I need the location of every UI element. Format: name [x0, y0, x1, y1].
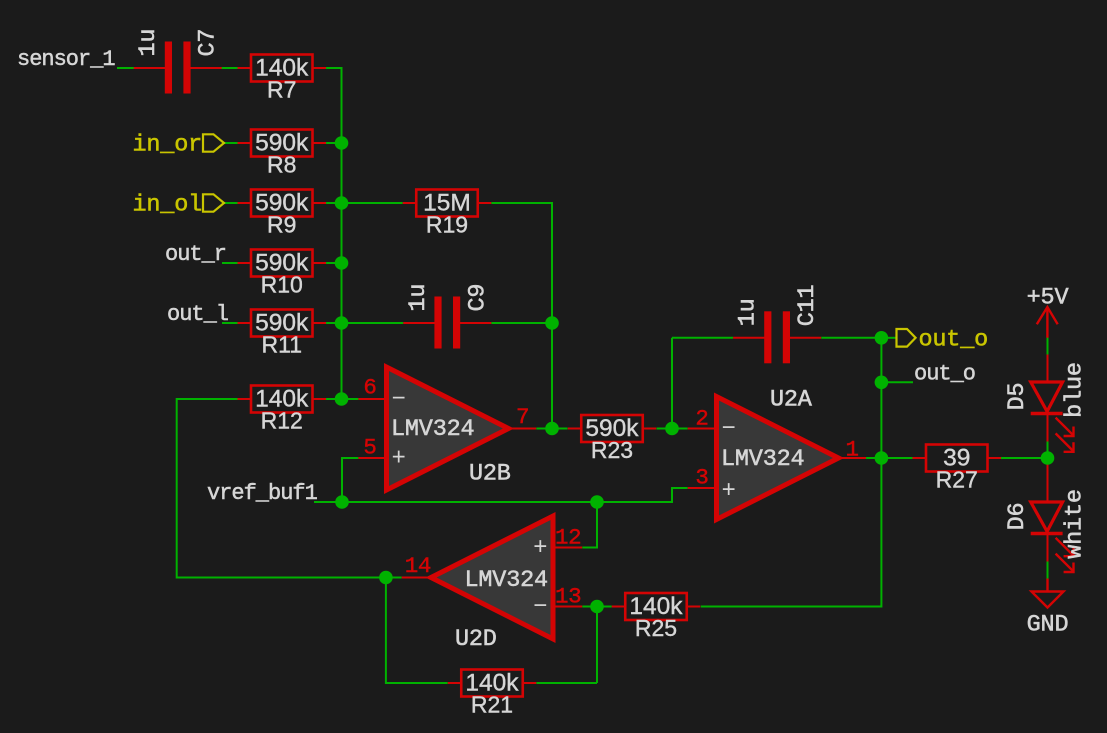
wire in_or to R8: [224, 142, 238, 144]
svg-text:1u: 1u: [735, 298, 762, 326]
resistor R7: [238, 55, 327, 103]
junction bus/out_l: [335, 316, 349, 330]
wire junction to R23: [552, 428, 568, 430]
wire junction up to C11 row: [671, 338, 673, 429]
wire D6 to GND: [1047, 562, 1049, 579]
LED D5: [1004, 355, 1089, 459]
wire C11 to junction: [821, 337, 881, 339]
svg-text:vref_buf1: vref_buf1: [207, 481, 318, 506]
wire U2D pin12 elbow to vref: [582, 502, 597, 548]
junction bus/out_r: [335, 256, 349, 270]
svg-text:C7: C7: [195, 29, 222, 57]
junction pin14: [379, 571, 393, 585]
op-amp U2B: [358, 367, 536, 490]
wire in_ol to R9: [224, 202, 238, 204]
svg-text:+: +: [533, 535, 547, 562]
svg-text:R10: R10: [261, 272, 303, 298]
svg-text:D5: D5: [1004, 383, 1031, 411]
junction feedback/C9: [545, 316, 559, 330]
wire U2A pin1 to junction: [866, 457, 881, 459]
svg-text:R21: R21: [471, 692, 513, 718]
resistor R21: [448, 670, 537, 718]
svg-text:LMV324: LMV324: [391, 416, 474, 443]
wire bus in_or to in_ol: [341, 143, 343, 203]
LED D6: [1004, 464, 1089, 572]
svg-text:R11: R11: [262, 332, 303, 358]
svg-text:out_r: out_r: [165, 242, 226, 267]
junction bus/R12/pin6: [335, 392, 349, 406]
wire out_r to R10: [222, 262, 238, 264]
svg-text:5: 5: [363, 435, 376, 461]
wire feedback riser to output row: [551, 323, 553, 429]
svg-text:13: 13: [555, 584, 581, 610]
svg-text:white: white: [1062, 489, 1089, 559]
wire R9 to junction: [326, 202, 342, 204]
svg-text:LMV324: LMV324: [465, 567, 548, 594]
resistor R27: [913, 445, 1002, 493]
junction C11/out_o: [875, 331, 889, 345]
svg-text:−: −: [533, 594, 547, 621]
svg-text:+: +: [392, 446, 406, 473]
svg-text:7: 7: [516, 404, 529, 430]
wire sensor_1 stub: [117, 67, 134, 69]
svg-text:+5V: +5V: [1027, 285, 1069, 312]
wire junction down to out_o tap: [880, 338, 882, 383]
wire bus in_ol to out_r: [341, 203, 343, 263]
svg-text:U2D: U2D: [455, 626, 497, 653]
wire R21 to pin14 riser: [386, 578, 448, 684]
svg-text:3: 3: [695, 465, 708, 491]
wire junction to C9: [342, 322, 404, 324]
svg-text:6: 6: [363, 375, 376, 401]
junction pin13/R25: [590, 600, 604, 614]
svg-text:14: 14: [405, 553, 431, 579]
wire +5V to D5: [1047, 336, 1049, 355]
wire bus out_r to out_l: [341, 263, 343, 323]
wire U2B pin5 elbow to vref: [342, 458, 358, 502]
svg-text:R8: R8: [267, 152, 296, 178]
svg-text:sensor_1: sensor_1: [17, 47, 115, 72]
svg-text:1u: 1u: [405, 284, 432, 312]
resistor R9: [238, 190, 327, 238]
wire junction to out_o global: [881, 337, 896, 339]
wire R27 to LED junction: [1001, 457, 1048, 459]
resistor R25: [612, 593, 701, 641]
svg-text:R23: R23: [591, 437, 633, 463]
op-amp U2D: [402, 516, 583, 653]
wire junction down to R21 row: [596, 607, 598, 684]
capacitor C7: [134, 29, 222, 94]
wire R19 to feedback riser: [491, 203, 552, 323]
svg-text:GND: GND: [1027, 612, 1069, 639]
wire C9 to junction: [491, 322, 552, 324]
svg-text:1: 1: [846, 437, 859, 463]
op-amp U2A: [688, 387, 866, 520]
wire out_o label stub: [881, 381, 913, 383]
wire junction to U2A pin2: [672, 428, 688, 430]
svg-text:−: −: [392, 387, 406, 414]
wire R8 to junction: [326, 142, 342, 144]
svg-text:D6: D6: [1004, 503, 1031, 531]
wire junction to R19: [342, 202, 403, 204]
junction vref/pin12: [590, 495, 604, 509]
wire R12 left loop to U2D: [177, 399, 386, 578]
svg-text:R9: R9: [267, 212, 296, 238]
wire junction to R25: [597, 606, 612, 608]
capacitor C9: [403, 284, 491, 349]
wire U2B pin7 to junction: [536, 428, 552, 430]
svg-text:2: 2: [695, 406, 708, 432]
wire junction to R27: [881, 457, 912, 459]
junction LED node: [1041, 451, 1055, 465]
wire C7 to R7: [221, 67, 238, 69]
junction bus/in_or: [335, 136, 349, 150]
svg-text:in_ol: in_ol: [132, 192, 202, 219]
resistor R23: [568, 415, 657, 463]
wire to R21: [536, 682, 597, 684]
resistor R12: [238, 386, 327, 434]
svg-text:R19: R19: [426, 212, 468, 238]
resistor R8: [238, 130, 327, 178]
capacitor C11: [733, 285, 821, 364]
wire vref_buf1 stub: [314, 501, 342, 503]
junction vref left: [335, 495, 349, 509]
wire R11 to junction: [326, 322, 342, 324]
svg-text:R25: R25: [635, 615, 677, 641]
svg-text:12: 12: [555, 525, 581, 551]
wire R10 to junction: [326, 262, 342, 264]
wire R12 to junction: [326, 398, 342, 400]
wire out_o tap to output junction: [880, 382, 882, 458]
svg-text:U2A: U2A: [770, 387, 813, 414]
junction pin7/R23: [545, 422, 559, 436]
wire vref junction to junction: [342, 501, 597, 503]
wire corner to C11: [672, 337, 733, 339]
svg-text:R27: R27: [936, 467, 978, 493]
wire R7 to bus: [326, 68, 342, 143]
svg-text:C9: C9: [464, 284, 491, 312]
ground GND: [1027, 579, 1069, 639]
resistor R19: [403, 190, 492, 238]
resistor R10: [238, 250, 327, 298]
wire junction to U2D pin14: [386, 577, 402, 579]
global label out_o: [897, 327, 989, 354]
svg-text:out_l: out_l: [167, 302, 228, 327]
svg-text:in_or: in_or: [132, 132, 202, 159]
svg-text:C11: C11: [794, 285, 821, 327]
svg-text:1u: 1u: [135, 29, 162, 57]
junction out_o tap: [875, 376, 889, 390]
svg-text:+: +: [722, 478, 736, 505]
svg-text:−: −: [722, 416, 736, 443]
svg-text:out_o: out_o: [914, 361, 975, 386]
wire out_l to R11: [222, 322, 238, 324]
wire U2D pin13 to junction: [582, 606, 597, 608]
junction bus/in_ol: [335, 196, 349, 210]
power symbol +5V: [1027, 285, 1069, 338]
svg-text:LMV324: LMV324: [721, 446, 804, 473]
wire R25 riser to output junction: [701, 458, 882, 607]
resistor R11: [238, 310, 327, 358]
junction output node: [875, 451, 889, 465]
wire R23 to junction: [657, 428, 673, 430]
wire junction to U2B pin6: [342, 398, 359, 400]
svg-text:U2B: U2B: [469, 461, 511, 488]
global label in_ol: [132, 192, 224, 219]
wire bus out_l to R12 row: [341, 323, 343, 399]
junction R23/pin2/C11: [665, 422, 679, 436]
svg-text:out_o: out_o: [919, 327, 989, 354]
svg-text:R12: R12: [261, 408, 303, 434]
svg-text:R7: R7: [267, 77, 296, 103]
svg-text:blue: blue: [1062, 362, 1089, 418]
wire vref to U2A pin3: [597, 488, 688, 502]
global label in_or: [132, 132, 224, 159]
